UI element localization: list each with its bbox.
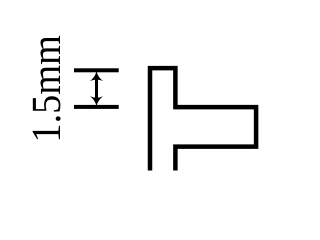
dimension arrow shaft [95,77,98,100]
dimension arrowhead down [90,96,103,107]
dimension extension line top [74,68,119,72]
dimension label 1.5mm (rotated) [33,36,61,140]
dimension extension line bottom [74,105,119,109]
dimension arrowhead up [90,71,103,82]
part outline: T-profile channel [150,68,256,170]
